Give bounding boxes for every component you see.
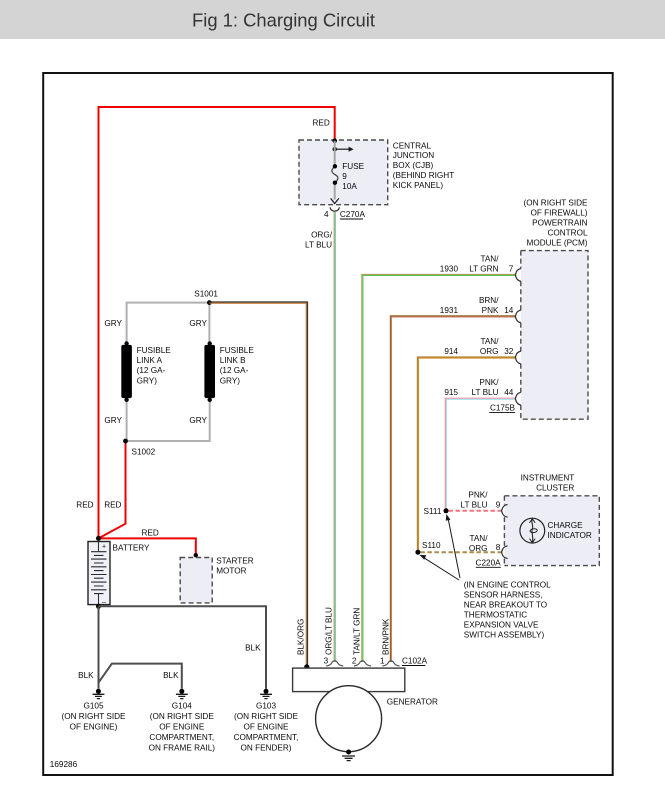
svg-text:FUSE: FUSE bbox=[342, 162, 364, 171]
harness annotation text bbox=[464, 581, 551, 640]
svg-text:ON FENDER): ON FENDER) bbox=[241, 744, 292, 753]
wire GRY fusible link A to S1002 bbox=[104, 401, 126, 441]
svg-text:9: 9 bbox=[342, 172, 347, 181]
svg-text:44: 44 bbox=[504, 388, 514, 397]
svg-text:LT GRN: LT GRN bbox=[469, 264, 498, 273]
svg-text:(ON RIGHT SIDE: (ON RIGHT SIDE bbox=[234, 712, 299, 721]
svg-text:THERMOSTATIC: THERMOSTATIC bbox=[464, 610, 527, 619]
wire GRY fusible link B to S1002 bbox=[126, 401, 210, 441]
svg-text:INDICATOR: INDICATOR bbox=[548, 531, 592, 540]
svg-text:EXPANSION VALVE: EXPANSION VALVE bbox=[464, 620, 539, 629]
svg-text:TAN/: TAN/ bbox=[480, 337, 499, 346]
svg-text:BRN/: BRN/ bbox=[479, 296, 499, 305]
wire ORG/LT BLU C270A to generator pin 3 bbox=[305, 212, 335, 663]
svg-text:BRN/PNK: BRN/PNK bbox=[382, 618, 391, 655]
wire PNK/LT BLU S111 to cluster pin 9 bbox=[449, 491, 502, 511]
splice S1002 bbox=[123, 439, 156, 457]
cluster pin 8 bbox=[496, 543, 508, 559]
svg-text:(ON RIGHT SIDE: (ON RIGHT SIDE bbox=[62, 712, 127, 721]
ground G103 bbox=[234, 689, 299, 753]
svg-text:G103: G103 bbox=[256, 702, 276, 711]
svg-text:(BEHIND RIGHT: (BEHIND RIGHT bbox=[393, 171, 454, 180]
svg-text:Fig 1: Charging Circuit: Fig 1: Charging Circuit bbox=[192, 10, 375, 31]
svg-text:RED: RED bbox=[142, 528, 159, 537]
harness annotation arrows bbox=[419, 514, 460, 580]
svg-text:S1001: S1001 bbox=[194, 290, 218, 299]
svg-text:7: 7 bbox=[509, 264, 514, 273]
svg-text:C102A: C102A bbox=[402, 657, 428, 666]
wire TAN/ORG PCM pin 32 to S110 bbox=[417, 337, 515, 550]
svg-text:GRY: GRY bbox=[189, 319, 207, 328]
PCM pin 7 bbox=[509, 264, 521, 281]
connector C102A pin 1 bbox=[380, 657, 400, 666]
wire PNK/LT BLU PCM pin 44 to S111 bbox=[444, 378, 515, 508]
svg-text:PNK/: PNK/ bbox=[479, 378, 499, 387]
svg-text:914: 914 bbox=[444, 347, 458, 356]
svg-text:CHARGE: CHARGE bbox=[548, 521, 584, 530]
figure number bbox=[50, 760, 78, 769]
wire BLK battery negative to G105 bbox=[78, 606, 98, 689]
central junction box CJB bbox=[299, 140, 454, 205]
svg-text:S1002: S1002 bbox=[132, 447, 156, 456]
svg-text:KICK PANEL): KICK PANEL) bbox=[393, 181, 444, 190]
wire GRY S1001 to fusible link A bbox=[104, 303, 209, 342]
connector C102A pin 3 bbox=[324, 657, 344, 666]
svg-text:GRY): GRY) bbox=[220, 376, 241, 385]
svg-text:LT BLU: LT BLU bbox=[472, 388, 499, 397]
svg-text:PNK/: PNK/ bbox=[468, 491, 488, 500]
junction battery negative bbox=[96, 604, 101, 609]
svg-text:MOTOR: MOTOR bbox=[216, 566, 246, 575]
splice S110 bbox=[415, 541, 441, 555]
svg-text:–: – bbox=[102, 599, 106, 606]
svg-text:G105: G105 bbox=[83, 702, 103, 711]
svg-text:LINK A: LINK A bbox=[137, 356, 163, 365]
svg-text:BOX (CJB): BOX (CJB) bbox=[393, 161, 434, 170]
svg-text:C175B: C175B bbox=[490, 404, 516, 413]
svg-text:ORG/: ORG/ bbox=[311, 230, 333, 239]
svg-text:3: 3 bbox=[324, 657, 329, 666]
svg-text:(ON RIGHT SIDE: (ON RIGHT SIDE bbox=[150, 712, 215, 721]
splice S111 bbox=[424, 507, 449, 516]
svg-text:GRY: GRY bbox=[104, 319, 122, 328]
generator bbox=[293, 668, 438, 752]
svg-text:S111: S111 bbox=[424, 507, 442, 516]
svg-text:SENSOR HARNESS,: SENSOR HARNESS, bbox=[464, 591, 543, 600]
svg-text:OF ENGINE: OF ENGINE bbox=[243, 723, 289, 732]
wire RED battery positive to CJB bbox=[76, 107, 334, 538]
svg-text:GRY): GRY) bbox=[137, 376, 158, 385]
instrument cluster bbox=[504, 473, 599, 565]
svg-text:COMPARTMENT,: COMPARTMENT, bbox=[234, 733, 299, 742]
ground G104 bbox=[149, 689, 216, 753]
svg-text:ORG: ORG bbox=[480, 347, 499, 356]
connector C270A bbox=[324, 207, 366, 219]
svg-text:RED: RED bbox=[76, 500, 93, 509]
svg-text:RED: RED bbox=[313, 119, 330, 128]
svg-text:(ON RIGHT SIDE: (ON RIGHT SIDE bbox=[524, 199, 589, 208]
svg-text:TAN/: TAN/ bbox=[480, 254, 499, 263]
svg-text:G104: G104 bbox=[172, 702, 192, 711]
connector C102A pin 2 bbox=[352, 657, 371, 666]
svg-text:COMPARTMENT,: COMPARTMENT, bbox=[149, 733, 214, 742]
wire RED S1002 to battery positive bbox=[99, 441, 126, 538]
svg-text:BLK: BLK bbox=[163, 671, 179, 680]
connector C220A bbox=[476, 559, 502, 568]
svg-text:OF ENGINE): OF ENGINE) bbox=[70, 723, 118, 732]
wire BLK branch to G104 bbox=[99, 664, 182, 689]
splice S1001 bbox=[194, 290, 218, 305]
svg-text:PNK: PNK bbox=[482, 306, 499, 315]
svg-text:1: 1 bbox=[380, 657, 385, 666]
svg-text:OF ENGINE: OF ENGINE bbox=[159, 723, 205, 732]
svg-text:BLK: BLK bbox=[78, 671, 94, 680]
starter motor bbox=[180, 556, 254, 603]
wire TAN/LT GRN PCM pin 7 to generator pin 2 bbox=[353, 254, 516, 662]
svg-text:CLUSTER: CLUSTER bbox=[536, 483, 574, 492]
svg-text:169286: 169286 bbox=[50, 760, 78, 769]
junction CJB feed bbox=[332, 138, 337, 143]
wire BLK/ORG S1001 to generator bbox=[209, 302, 307, 664]
powertrain control module PCM bbox=[521, 199, 588, 420]
svg-text:MODULE (PCM): MODULE (PCM) bbox=[527, 238, 588, 247]
fusible link B bbox=[204, 341, 254, 402]
svg-text:14: 14 bbox=[504, 306, 514, 315]
svg-text:2: 2 bbox=[352, 657, 357, 666]
wire TAN/ORG S110 to cluster pin 8 bbox=[421, 534, 502, 553]
junction BLK/ORG at generator bbox=[304, 664, 309, 669]
svg-text:ON FRAME RAIL): ON FRAME RAIL) bbox=[149, 744, 216, 753]
svg-text:INSTRUMENT: INSTRUMENT bbox=[521, 473, 575, 482]
svg-text:BLK: BLK bbox=[245, 644, 261, 653]
wire GRY S1001 to fusible link B bbox=[189, 303, 209, 342]
svg-text:GRY: GRY bbox=[104, 416, 122, 425]
CJB internal feed arrow bbox=[333, 147, 354, 152]
wire RED battery positive to starter motor bbox=[99, 528, 196, 555]
svg-text:LT BLU: LT BLU bbox=[305, 240, 332, 249]
svg-text:1931: 1931 bbox=[440, 306, 459, 315]
PCM pin 44 bbox=[504, 388, 521, 405]
svg-text:LT BLU: LT BLU bbox=[461, 501, 488, 510]
svg-text:GENERATOR: GENERATOR bbox=[387, 698, 438, 707]
terminal starter motor bbox=[194, 553, 198, 557]
ground generator case bbox=[342, 750, 355, 761]
svg-text:1930: 1930 bbox=[440, 264, 459, 273]
PCM pin 14 bbox=[504, 306, 521, 323]
svg-text:STARTER: STARTER bbox=[216, 556, 254, 565]
svg-text:BLK/ORG: BLK/ORG bbox=[297, 619, 306, 655]
svg-text:RED: RED bbox=[104, 500, 121, 509]
fusible link A bbox=[121, 341, 171, 402]
svg-text:ORG: ORG bbox=[469, 544, 488, 553]
svg-text:GRY: GRY bbox=[189, 416, 207, 425]
svg-text:TAN/: TAN/ bbox=[469, 534, 488, 543]
svg-text:C220A: C220A bbox=[476, 559, 502, 568]
svg-text:9: 9 bbox=[496, 501, 501, 510]
svg-text:OF FIREWALL): OF FIREWALL) bbox=[530, 209, 587, 218]
svg-text:ORG/LT BLU: ORG/LT BLU bbox=[325, 607, 334, 655]
svg-text:SWITCH ASSEMBLY): SWITCH ASSEMBLY) bbox=[464, 630, 545, 639]
svg-text:NEAR BREAKOUT TO: NEAR BREAKOUT TO bbox=[464, 600, 547, 609]
svg-text:FUSIBLE: FUSIBLE bbox=[137, 346, 172, 355]
svg-text:+: + bbox=[102, 544, 106, 551]
svg-text:915: 915 bbox=[444, 388, 458, 397]
svg-text:C270A: C270A bbox=[340, 210, 366, 219]
svg-text:POWERTRAIN: POWERTRAIN bbox=[532, 219, 587, 228]
fuse F9 10A bbox=[332, 141, 365, 200]
svg-text:LINK B: LINK B bbox=[220, 356, 246, 365]
svg-text:FUSIBLE: FUSIBLE bbox=[220, 346, 255, 355]
connector C175B bbox=[489, 404, 515, 413]
svg-text:8: 8 bbox=[496, 543, 501, 552]
cluster pin 9 bbox=[496, 501, 508, 517]
svg-text:4: 4 bbox=[324, 210, 329, 219]
svg-text:BATTERY: BATTERY bbox=[113, 543, 151, 552]
svg-text:(12 GA-: (12 GA- bbox=[137, 366, 166, 375]
svg-text:CONTROL: CONTROL bbox=[547, 229, 587, 238]
svg-text:S110: S110 bbox=[422, 541, 441, 550]
wire BRN/PNK PCM pin 14 to generator pin 1 bbox=[382, 296, 516, 662]
svg-text:32: 32 bbox=[504, 347, 514, 356]
PCM pin 32 bbox=[504, 347, 521, 364]
CJB output arrow bbox=[331, 198, 339, 203]
ground G105 bbox=[62, 689, 127, 732]
svg-text:JUNCTION: JUNCTION bbox=[393, 151, 434, 160]
svg-text:CENTRAL: CENTRAL bbox=[393, 141, 432, 150]
battery bbox=[88, 542, 150, 606]
svg-text:10A: 10A bbox=[342, 182, 357, 191]
connector C102A label bbox=[402, 657, 428, 666]
svg-text:TAN/LT GRN: TAN/LT GRN bbox=[353, 608, 362, 655]
svg-text:(IN ENGINE CONTROL: (IN ENGINE CONTROL bbox=[464, 581, 551, 590]
junction battery positive bbox=[96, 536, 101, 541]
charge indicator lamp bbox=[520, 518, 592, 543]
wire BLK battery negative to G103 bbox=[99, 606, 267, 689]
svg-text:(12 GA-: (12 GA- bbox=[220, 366, 249, 375]
